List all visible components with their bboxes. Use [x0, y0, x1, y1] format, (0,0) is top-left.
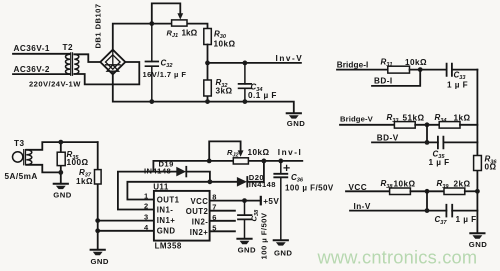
watermark www.cntronics.com — [317, 247, 478, 268]
op-amp U11 LM358 — [153, 183, 209, 251]
C32 labels — [143, 59, 187, 79]
RJ1 labels — [167, 29, 198, 40]
resistor R30 — [204, 29, 212, 45]
wire R33 to R34 — [415, 122, 439, 127]
resistor R34 — [439, 122, 460, 129]
ground symbol C36 — [274, 240, 293, 257]
svg-text:GND: GND — [274, 248, 292, 257]
wire VCC pin 8 to +5V — [210, 198, 261, 203]
net VCC — [346, 183, 390, 192]
transformer T2 — [63, 43, 79, 75]
net In-V — [350, 202, 446, 213]
svg-text:2: 2 — [144, 202, 149, 211]
wire D20 cathode to Inv-I node — [247, 161, 264, 182]
wire OUT2 pin 7 stub — [210, 210, 235, 212]
R34 labels — [435, 113, 471, 124]
wire R38 to R39 — [410, 189, 444, 194]
wire Bridge-V junction down to BD-V — [426, 125, 428, 143]
junction top rail / C32 — [149, 21, 154, 26]
potentiometer RJ2 — [233, 158, 248, 164]
net BD-V — [372, 133, 438, 144]
D20 labels — [249, 173, 276, 189]
C34 labels — [248, 83, 277, 101]
svg-text:IN4148: IN4148 — [144, 167, 171, 176]
svg-text:1kΩ: 1kΩ — [454, 114, 471, 123]
svg-text:51kΩ: 51kΩ — [403, 114, 425, 123]
resistor R37 — [95, 142, 102, 249]
R30 labels — [214, 30, 236, 49]
wire D19 cathode to OUT1 node — [186, 172, 210, 182]
wire R39 to rail — [465, 190, 478, 192]
resistor R35 — [57, 140, 65, 184]
svg-text:10kΩ: 10kΩ — [405, 58, 427, 67]
+5V supply — [261, 197, 280, 206]
svg-text:Bridge-I: Bridge-I — [337, 60, 369, 69]
net Inv-V — [205, 54, 303, 65]
svg-text:100 µ F/50V: 100 µ F/50V — [285, 183, 334, 192]
wire stub IN1- to RJ2 line — [152, 161, 154, 172]
resistor R31 — [388, 66, 410, 73]
diode D19 — [176, 167, 186, 177]
node AC36V-2 — [13, 65, 70, 74]
U11 pin numbers — [144, 192, 217, 233]
svg-text:3kΩ: 3kΩ — [216, 87, 233, 96]
svg-text:DB1 DB107: DB1 DB107 — [94, 4, 103, 49]
wire VCC junction down to In-V — [426, 191, 428, 210]
svg-text:GND: GND — [157, 227, 176, 236]
potentiometer RJ1 — [172, 20, 187, 26]
RJ2 wiper arrow — [238, 150, 244, 156]
svg-text:IN2+: IN2+ — [190, 228, 209, 237]
C37 labels — [435, 215, 477, 226]
T3 rating label — [5, 172, 38, 181]
svg-text:1 µ F: 1 µ F — [456, 215, 477, 224]
right rail wire — [475, 70, 480, 233]
svg-text:IN1+: IN1+ — [157, 216, 176, 225]
svg-text:BD-I: BD-I — [374, 77, 393, 86]
capacitor C37 — [446, 205, 477, 217]
svg-text:AC36V-1: AC36V-1 — [14, 44, 50, 53]
svg-text:T3: T3 — [14, 139, 24, 148]
T2 rating label — [29, 80, 81, 89]
svg-text:100 µ F/50V: 100 µ F/50V — [260, 212, 269, 259]
node AC36V-1 — [13, 44, 70, 54]
svg-text:GND: GND — [238, 245, 256, 254]
capacitor C35 — [438, 137, 478, 149]
svg-text:VCC: VCC — [349, 183, 368, 192]
wire trimmer RJ1 wiper loop — [152, 3, 181, 23]
C33 labels — [447, 70, 468, 89]
capacitor C36 — [274, 161, 289, 240]
ground symbol T3 — [53, 184, 71, 200]
svg-text:IN1-: IN1- — [157, 205, 174, 214]
svg-text:Inv-V: Inv-V — [276, 54, 304, 63]
svg-text:3: 3 — [144, 213, 149, 222]
svg-text:U11: U11 — [153, 183, 169, 192]
svg-text:10kΩ: 10kΩ — [248, 148, 270, 157]
C36 labels — [285, 173, 334, 192]
R32 labels — [216, 78, 233, 95]
wire IN2+ pin 5 stub — [210, 230, 235, 232]
net Bridge-I — [337, 60, 388, 69]
wire T2 secondary top to bridge AC1 — [74, 54, 100, 62]
C35 labels — [429, 149, 450, 167]
ground symbol PSU — [287, 113, 306, 128]
ground symbol input divider — [91, 250, 109, 266]
svg-text:2kΩ: 2kΩ — [454, 179, 471, 188]
svg-text:1 µ F: 1 µ F — [429, 158, 450, 167]
R36 labels — [485, 155, 498, 172]
svg-text:BD-V: BD-V — [377, 133, 399, 142]
svg-text:1kΩ: 1kΩ — [76, 177, 93, 186]
svg-text:4: 4 — [144, 223, 149, 232]
net Inv-I wire — [153, 148, 302, 163]
R33 labels — [387, 113, 425, 124]
wire R30 to Inv-V node — [207, 45, 209, 63]
svg-text:5A/5mA: 5A/5mA — [5, 172, 38, 181]
svg-text:LM358: LM358 — [155, 241, 182, 250]
svg-text:16V/1.7 µ F: 16V/1.7 µ F — [143, 70, 187, 79]
svg-text:VCC: VCC — [190, 197, 208, 206]
svg-text:In-V: In-V — [354, 202, 371, 211]
net BD-I — [372, 70, 420, 86]
capacitor C34 — [239, 63, 252, 102]
resistor R32 — [204, 63, 212, 102]
svg-text:0Ω: 0Ω — [485, 163, 497, 172]
svg-text:1 µ F: 1 µ F — [447, 81, 468, 90]
resistor R33 — [394, 122, 415, 129]
svg-text:AC36V-2: AC36V-2 — [14, 65, 50, 74]
svg-text:OUT2: OUT2 — [186, 207, 209, 216]
R39 labels — [437, 179, 471, 190]
wire T2 secondary bottom to bridge AC2 — [74, 62, 139, 84]
wire T3 secondary bottom — [26, 165, 61, 173]
ground symbol right rail — [469, 233, 487, 249]
svg-text:GND: GND — [91, 257, 109, 266]
svg-text:10kΩ: 10kΩ — [394, 179, 416, 188]
capacitor C38 — [238, 201, 252, 239]
resistor R39 — [444, 188, 465, 195]
svg-text:1: 1 — [144, 192, 149, 201]
wire to IN1+ pin 3 — [98, 220, 154, 222]
capacitor C33 — [447, 64, 478, 76]
svg-text:Inv-I: Inv-I — [278, 148, 303, 157]
RJ2 labels — [227, 148, 270, 159]
wire trimmer RJ2 wiper loop — [209, 141, 240, 161]
diode D20 — [237, 177, 247, 187]
wire R31 to C33 — [410, 67, 447, 72]
C38 labels (rotated) — [250, 209, 269, 260]
svg-text:1kΩ: 1kΩ — [182, 29, 198, 38]
wire OUT1 pin 1 feedback — [127, 179, 236, 199]
net Bridge-V — [340, 114, 394, 124]
D19 labels — [144, 159, 174, 175]
svg-text:IN2-: IN2- — [192, 217, 209, 226]
svg-text:GND: GND — [287, 119, 305, 128]
ground symbol C38 — [237, 239, 256, 255]
current transformer T3 — [13, 139, 32, 165]
svg-text:0.1 µ F: 0.1 µ F — [248, 91, 277, 100]
R35 labels — [67, 150, 89, 167]
bridge rectifier DB1 DB107 — [94, 4, 126, 75]
R37 labels — [76, 168, 93, 186]
svg-text:Bridge-V: Bridge-V — [340, 114, 374, 123]
wire bridge output to top rail and R30 — [113, 24, 208, 50]
capacitor C32 — [146, 24, 159, 102]
wire R34 to rail — [460, 124, 477, 126]
resistor R36 — [474, 156, 482, 171]
svg-text:100Ω: 100Ω — [67, 158, 89, 167]
wire T3 secondary top — [26, 142, 97, 150]
svg-text:T2: T2 — [63, 43, 73, 52]
svg-text:OUT1: OUT1 — [157, 195, 180, 204]
ground rail (PSU) — [113, 74, 294, 113]
svg-text:www.cntronics.com: www.cntronics.com — [317, 247, 478, 268]
svg-text:10kΩ: 10kΩ — [214, 39, 236, 48]
resistor R38 — [390, 188, 411, 195]
wire to GND pin 4 — [98, 230, 154, 232]
R31 labels — [381, 58, 428, 69]
wire IN2- pin 6 stub — [210, 220, 235, 222]
R38 labels — [381, 179, 416, 190]
RJ1 wiper arrow — [177, 13, 183, 19]
svg-text:220V/24V-1W: 220V/24V-1W — [29, 80, 81, 89]
svg-text:GND: GND — [53, 190, 71, 199]
svg-text:+5V: +5V — [263, 197, 279, 206]
wire IN1- pin 2 feedback loop — [118, 172, 176, 210]
